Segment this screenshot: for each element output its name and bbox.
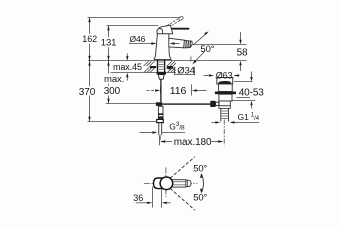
dimension 116 xyxy=(147,57,207,96)
reference line (cap top level 131) xyxy=(107,25,159,27)
dimension line column 131/max300 xyxy=(108,26,110,74)
waste lever knob xyxy=(210,101,215,107)
arrow up 162 top xyxy=(88,17,90,22)
O46 inner arrow xyxy=(173,43,180,45)
waste body lower xyxy=(219,101,230,106)
arrow down 40-53 top xyxy=(250,77,252,82)
svg-text:58: 58 xyxy=(237,48,248,59)
washer bar left xyxy=(150,66,157,68)
waste coupling ring xyxy=(219,106,230,109)
svg-text:162: 162 xyxy=(82,34,97,44)
arrow down max300 bottom xyxy=(107,99,109,104)
waste knob rim xyxy=(218,81,231,84)
leader G1 1/4 xyxy=(212,121,260,123)
deck hatching left of body xyxy=(144,61,155,72)
top view vertical center line xyxy=(165,167,167,197)
arrow up 40-53 bottom xyxy=(250,101,252,106)
leader 50deg upper xyxy=(193,33,206,45)
waste center line xyxy=(223,120,225,146)
svg-text:Ø46: Ø46 xyxy=(130,34,146,44)
arrow down 162 bottom xyxy=(88,56,90,61)
pivot knob xyxy=(157,28,163,33)
40-53 reference lines xyxy=(232,82,255,101)
dimension line column 162/370 xyxy=(89,18,91,122)
svg-text:G3/8: G3/8 xyxy=(169,121,185,131)
waste neck xyxy=(219,84,233,92)
swivel range line upper xyxy=(170,157,195,179)
arrow down 131 bottom xyxy=(107,56,109,61)
supply hose xyxy=(159,123,162,135)
top view spout tube xyxy=(172,180,186,187)
top view horizontal center line xyxy=(144,182,198,184)
waste tail pipe xyxy=(221,108,229,121)
top view body circle xyxy=(160,177,173,190)
arrow up 58 bottom xyxy=(239,61,241,66)
svg-text:max.180: max.180 xyxy=(174,137,212,148)
lever pivot block xyxy=(165,25,171,29)
deck hatching right of body xyxy=(167,61,176,72)
locknut xyxy=(157,72,166,75)
waste lever rod xyxy=(216,102,219,105)
top view aerator cap xyxy=(186,180,191,186)
svg-text:Ø63: Ø63 xyxy=(216,71,233,81)
dimension max.180 xyxy=(160,135,223,145)
svg-text:50°: 50° xyxy=(193,193,207,204)
svg-text:300: 300 xyxy=(104,86,121,97)
arrow up 131 top xyxy=(107,26,109,31)
leader G3/8 xyxy=(140,132,186,134)
spout outlet reference line (58 top) xyxy=(193,44,247,46)
deck top / rim reference line xyxy=(88,60,247,62)
lever rod horizontal xyxy=(171,28,189,30)
waste knob xyxy=(217,78,233,84)
pop-up rod guide xyxy=(158,75,164,80)
top reference line (lever tip level) xyxy=(88,17,181,19)
aerator xyxy=(184,40,193,48)
swivel range line lower xyxy=(170,188,195,210)
top view lever xyxy=(154,178,165,189)
swivel arc xyxy=(202,174,204,192)
linkage reference line (max300 bottom) xyxy=(106,103,156,105)
svg-text:50°: 50° xyxy=(200,44,214,55)
svg-text:131: 131 xyxy=(101,37,117,48)
svg-text:116: 116 xyxy=(170,85,187,97)
leader 50deg lower xyxy=(195,51,206,62)
spout xyxy=(169,38,185,48)
leader O34 xyxy=(171,67,195,76)
hose coupling detail xyxy=(158,106,163,118)
rod junction xyxy=(156,102,162,106)
svg-text:370: 370 xyxy=(79,87,96,98)
washer bar right xyxy=(167,66,173,68)
svg-text:50°: 50° xyxy=(193,164,207,175)
40-53 dimension tails xyxy=(251,72,253,78)
waste body xyxy=(219,94,232,101)
arrow up 370 segment xyxy=(88,61,90,66)
arrow up max45 bottom xyxy=(126,73,128,78)
arrow up max300 top xyxy=(107,61,109,66)
arrow down max45 top xyxy=(126,56,128,61)
dimension O63 xyxy=(204,76,240,78)
hose end reference line (370 bottom) xyxy=(88,121,157,123)
svg-text:max.: max. xyxy=(104,74,124,85)
58 dimension tails xyxy=(240,32,242,40)
body xyxy=(154,34,171,60)
linkage rod xyxy=(162,103,210,104)
arrow down 58 top xyxy=(239,40,241,45)
svg-text:Ø34: Ø34 xyxy=(177,66,195,77)
svg-text:max.45: max.45 xyxy=(113,62,142,72)
arrow down 370 bottom xyxy=(88,117,90,122)
shank xyxy=(158,60,165,72)
dimension 36 xyxy=(136,187,171,208)
max45 arrow tails xyxy=(126,54,128,57)
pop-up rod xyxy=(160,79,162,102)
svg-text:40-53: 40-53 xyxy=(239,87,265,98)
deck bottom line xyxy=(111,72,177,74)
svg-text:G1 1/4: G1 1/4 xyxy=(238,112,260,122)
phantom raised lever xyxy=(167,16,184,28)
svg-text:36: 36 xyxy=(133,193,143,203)
G3/8 nut xyxy=(157,119,164,122)
waste flange xyxy=(215,92,236,95)
hose center line xyxy=(159,135,161,140)
cap dome xyxy=(157,25,173,34)
leader O46 xyxy=(129,43,152,45)
